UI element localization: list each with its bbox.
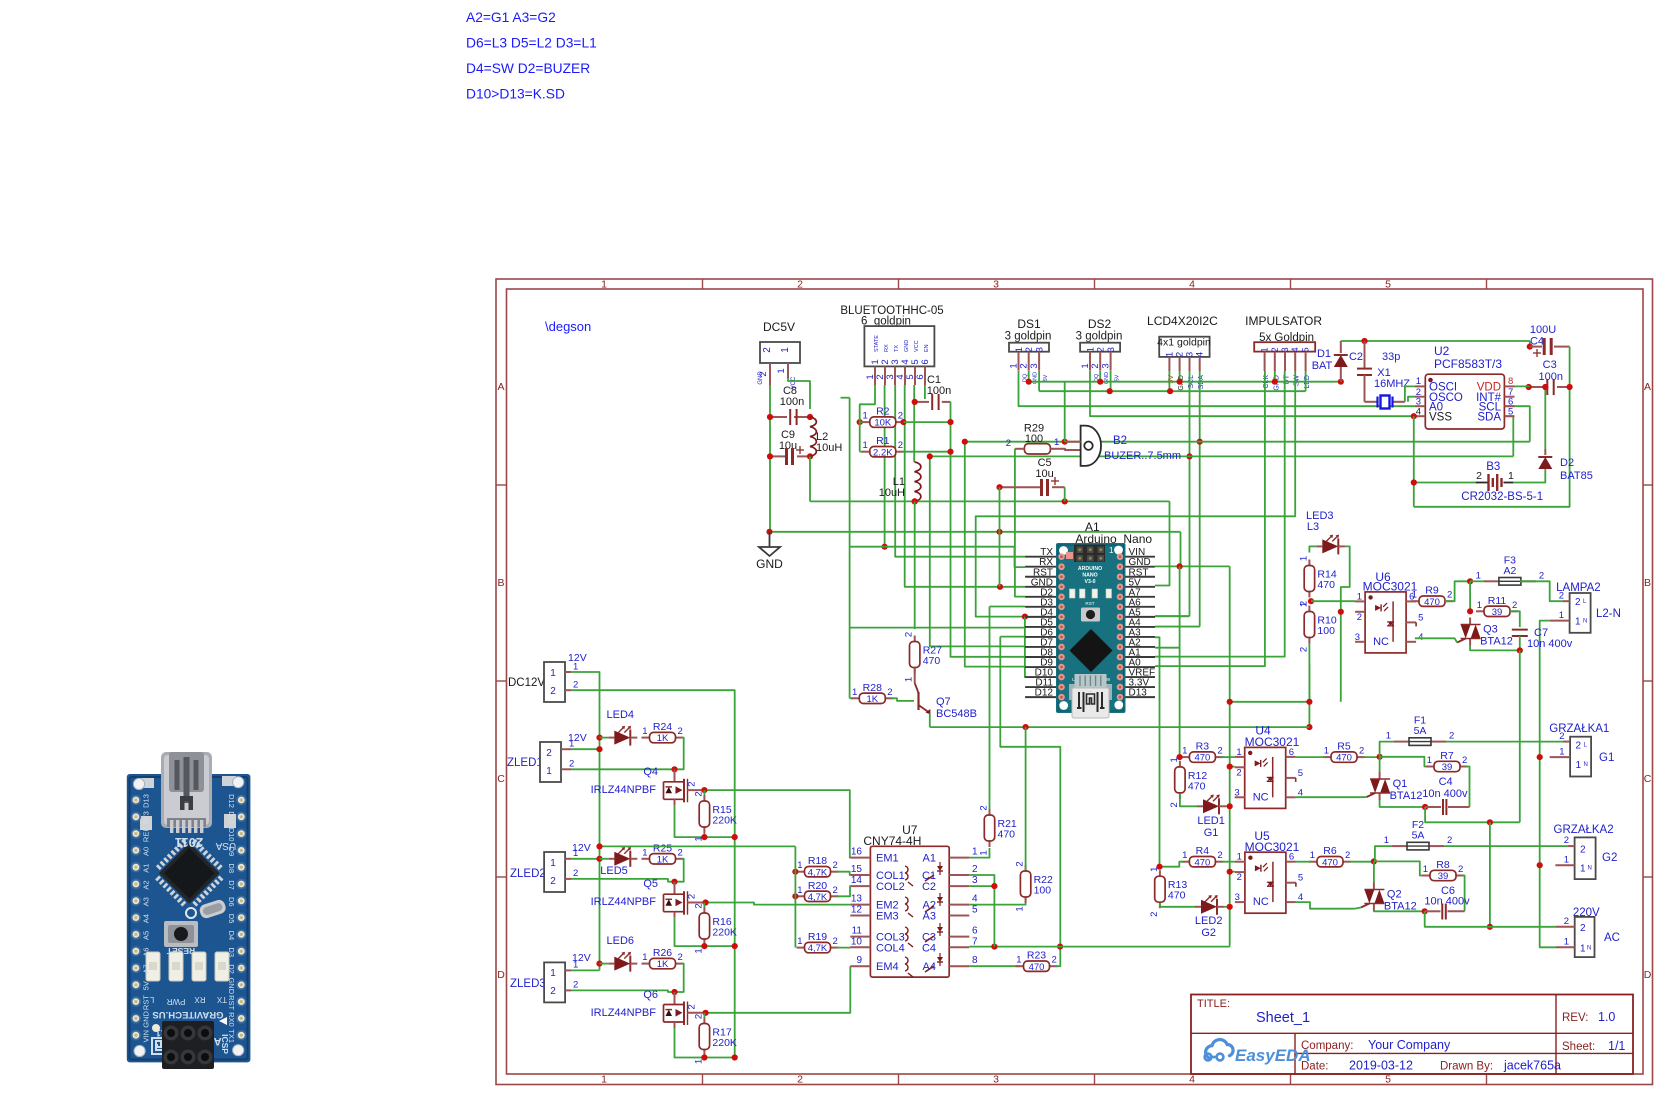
arduino nano board graphic	[1056, 543, 1126, 713]
transistor Q6 IRLZ44NPBF	[674, 992, 676, 1005]
sheet column/row ticks and labels	[702, 279, 704, 289]
node junction at 705.6,902.5	[703, 899, 709, 905]
svg-text:1: 1	[1423, 864, 1428, 875]
wire D7 col	[930, 456, 1025, 646]
svg-text:4,7K: 4,7K	[808, 867, 828, 878]
U7 pin 8 A4	[949, 965, 969, 967]
svg-text:LED1: LED1	[1197, 815, 1225, 827]
wire D3 col to R21	[990, 606, 1026, 608]
svg-text:STATE: STATE	[874, 335, 880, 352]
wire U7 A1 to R21	[969, 848, 989, 858]
svg-text:1: 1	[1260, 347, 1270, 352]
svg-text:10u: 10u	[1035, 468, 1053, 480]
svg-text:Drawn By:: Drawn By:	[1440, 1061, 1493, 1073]
svg-text:2019-03-12: 2019-03-12	[1349, 1059, 1413, 1073]
U7 pin 13 EM2	[850, 904, 870, 906]
svg-text:GND: GND	[227, 977, 236, 994]
svg-text:5A: 5A	[1414, 725, 1427, 737]
U7 inner transistor glyphs	[905, 866, 908, 880]
wire Q2 loop down to AC pin2 run	[1425, 911, 1556, 927]
svg-text:1: 1	[1357, 591, 1362, 602]
svg-text:11: 11	[852, 926, 863, 937]
svg-text:2: 2	[1559, 731, 1564, 742]
svg-text:1K: 1K	[657, 959, 669, 970]
svg-text:EM3: EM3	[876, 911, 899, 923]
resistor R15	[703, 795, 705, 801]
wire F2-1 to node	[1375, 846, 1392, 861]
wire R18-2 to COL1	[837, 872, 851, 875]
wire R9-2 to F3	[1445, 581, 1470, 601]
svg-text:100U: 100U	[1530, 324, 1556, 336]
svg-text:A3: A3	[923, 911, 936, 923]
svg-text:N: N	[1587, 946, 1591, 952]
svg-text:1: 1	[1016, 955, 1021, 966]
svg-text:1: 1	[601, 1074, 607, 1086]
svg-text:2: 2	[687, 894, 698, 899]
svg-text:220K: 220K	[712, 927, 737, 939]
pin 3.3V (right)	[1126, 686, 1156, 688]
node junction at 1170.1,391.2	[1167, 388, 1173, 394]
svg-text:1: 1	[601, 279, 607, 291]
svg-text:A1: A1	[923, 853, 936, 865]
wire Q6 drain to U7 EM4	[706, 966, 851, 1013]
pin D3 (left)	[1025, 606, 1056, 608]
wire U7 C1/C2 tie	[969, 875, 994, 947]
svg-text:AC: AC	[1604, 932, 1620, 944]
node junction at 1489.9,822.3	[1487, 819, 1493, 825]
svg-text:R1: R1	[876, 435, 890, 447]
svg-text:R25: R25	[653, 842, 672, 854]
svg-text:A2: A2	[1503, 565, 1516, 577]
svg-text:2: 2	[1447, 590, 1452, 601]
svg-text:L3: L3	[1307, 521, 1319, 533]
wire ZLED1 pin1 to 12V col	[571, 748, 600, 750]
node junction at 599.5,737.6	[596, 735, 602, 741]
svg-text:A1: A1	[142, 864, 151, 873]
wire GND rail run	[770, 531, 1181, 533]
node junction at 950.5,422.1	[947, 419, 953, 425]
wire F3 node down to R11/Q3	[1469, 581, 1471, 611]
svg-text:5V: 5V	[1115, 374, 1121, 381]
svg-text:IRLZ44NPBF: IRLZ44NPBF	[591, 896, 657, 908]
svg-text:1: 1	[1575, 617, 1581, 628]
LED LED2	[1195, 906, 1201, 908]
node junction at 704.4,1057.5	[701, 1054, 707, 1060]
svg-text:2: 2	[1462, 755, 1467, 766]
svg-text:12V: 12V	[568, 732, 587, 744]
svg-text:2: 2	[904, 632, 915, 637]
svg-text:BTA12: BTA12	[1390, 790, 1423, 802]
svg-text:R5: R5	[1337, 741, 1351, 753]
wire vdd top run	[1341, 340, 1530, 342]
svg-text:NC: NC	[1253, 896, 1269, 908]
svg-text:5: 5	[1298, 768, 1303, 779]
svg-text:RST: RST	[142, 995, 151, 1010]
wire R11-2 to C7	[1510, 611, 1520, 627]
svg-text:1: 1	[1236, 747, 1241, 758]
pin A4 (right)	[1126, 626, 1156, 628]
wire L1 bottom to R27 column	[914, 501, 916, 629]
wire Q3 bottom loop	[1470, 646, 1520, 651]
svg-text:470: 470	[1194, 857, 1210, 868]
svg-text:13: 13	[851, 894, 863, 905]
wire R29 to D2	[1015, 449, 1025, 597]
wire neutral bus	[1540, 621, 1556, 948]
node junction at 1229.7,871.7	[1227, 869, 1233, 875]
wire D10 to D4	[1024, 617, 1026, 678]
pin A2 (right)	[1126, 646, 1156, 648]
svg-text:1: 1	[1384, 835, 1389, 846]
pin A0 (right)	[1126, 666, 1156, 668]
svg-text:14: 14	[851, 875, 863, 886]
pin D12 (left)	[1025, 696, 1056, 698]
wire LCD SCL col to A5	[1189, 371, 1191, 616]
wire A4 col up	[1155, 626, 1200, 628]
wire IMP DT to A1 row	[1155, 371, 1285, 657]
wire B3 left to VSS col	[1414, 482, 1476, 484]
optocoupler U6 MOC3021	[1365, 592, 1406, 653]
node junction at 914.7,501.4	[912, 498, 918, 504]
svg-text:1: 1	[863, 411, 868, 422]
node junction at 1100.2,381.7	[1097, 379, 1103, 385]
node junction at 795.4,871.7	[792, 869, 798, 875]
svg-text:2: 2	[550, 986, 556, 997]
svg-text:2: 2	[1512, 600, 1517, 611]
svg-text:10n 400v: 10n 400v	[1422, 788, 1468, 800]
svg-text:1: 1	[1169, 757, 1180, 762]
wire R23-2 to D6 col	[1056, 959, 1061, 967]
svg-text:1: 1	[904, 677, 915, 682]
node junction at 674.5,769.3	[671, 766, 677, 772]
pin A1 (right)	[1126, 656, 1156, 658]
node junction at 1539.7,865.2	[1537, 862, 1543, 868]
wire Q4 source to rail	[675, 805, 735, 837]
resistor R4	[1181, 861, 1189, 863]
wire R22 top to gnd run	[1025, 727, 1027, 870]
node junction at 1159.5,866.7	[1156, 864, 1162, 870]
svg-text:D12: D12	[1035, 688, 1054, 699]
wire LCD SDA col to A4	[1199, 371, 1201, 627]
svg-text:D13: D13	[142, 794, 151, 808]
wire ZLED1 pin2 to gate node	[571, 768, 675, 770]
wire R4-1 to A3 node	[1160, 862, 1184, 867]
node junction at 1569.6,387	[1567, 384, 1573, 390]
svg-text:5: 5	[1298, 873, 1303, 884]
node junction at 599.5,858.8	[596, 856, 602, 862]
svg-text:2: 2	[573, 980, 578, 991]
wire R6-2 to F2 node	[1349, 861, 1374, 863]
svg-text:470: 470	[1188, 780, 1206, 792]
svg-text:4: 4	[1290, 347, 1300, 352]
resistor R14	[1308, 560, 1310, 566]
svg-text:GND: GND	[142, 1010, 151, 1027]
svg-text:D9: D9	[227, 847, 236, 857]
svg-text:N: N	[1588, 866, 1592, 872]
svg-text:D6=L3 D5=L2 D3=L1: D6=L3 D5=L2 D3=L1	[466, 36, 597, 51]
wire ZLED2 pin2 to gate node	[571, 879, 675, 882]
svg-text:470: 470	[1322, 857, 1338, 868]
wire D6 col to R23 col	[1000, 636, 1025, 638]
wire RX link column	[849, 398, 851, 699]
svg-text:4: 4	[1195, 352, 1206, 357]
node junction at 964.8,441.7	[962, 439, 968, 445]
svg-text:NC: NC	[1373, 636, 1389, 648]
wire crystal to OSCI	[1405, 386, 1415, 401]
resistor R5	[1323, 756, 1331, 758]
svg-text:2: 2	[1447, 835, 1452, 846]
svg-text:R24: R24	[653, 721, 672, 733]
pin D7 (left)	[1025, 646, 1056, 648]
svg-text:A2=G1 A3=G2: A2=G1 A3=G2	[466, 10, 556, 25]
node junction at 1529.8,346.6	[1527, 344, 1533, 350]
U7 pin 6 C3	[949, 936, 969, 938]
svg-text:1: 1	[1149, 867, 1160, 872]
wire R24-2 to node	[675, 738, 684, 770]
svg-text:1: 1	[979, 850, 990, 855]
resistor R19	[797, 947, 805, 949]
svg-text:EM4: EM4	[876, 961, 899, 973]
svg-text:C3: C3	[1543, 359, 1557, 371]
svg-text:2: 2	[687, 781, 698, 786]
svg-text:R19: R19	[808, 931, 827, 943]
node junction at 1373.9,861.4	[1371, 858, 1377, 864]
node junction at 1199.7,441.7	[1197, 439, 1203, 445]
resistor R7	[1426, 766, 1434, 768]
EasyEDA logo	[1205, 1040, 1233, 1061]
svg-text:D11: D11	[227, 811, 236, 824]
svg-text:1K: 1K	[866, 694, 878, 705]
wire ZLED3 pin2 to gate node	[571, 990, 675, 992]
svg-text:39: 39	[1442, 762, 1453, 773]
svg-text:3V3: 3V3	[142, 811, 151, 824]
wire VDD to C3	[1515, 385, 1529, 388]
wire U7 A2 to R22	[969, 898, 1025, 905]
wire DS1 DQ to A0 row	[1019, 371, 1415, 406]
svg-text:4,7K: 4,7K	[808, 892, 828, 903]
svg-text:2: 2	[678, 726, 683, 737]
wire 12V to pullup column	[600, 845, 796, 847]
node junction at 1311,601.2	[1308, 598, 1314, 604]
svg-text:2: 2	[1449, 731, 1454, 742]
wire 5V rail run	[810, 500, 1170, 502]
svg-text:ZLED3: ZLED3	[510, 978, 546, 990]
node junction at 1229.7,906.8	[1227, 904, 1233, 910]
wire R12 bottom to LED1	[1180, 793, 1197, 806]
svg-text:1: 1	[780, 347, 791, 353]
svg-text:10uH: 10uH	[879, 487, 905, 499]
svg-text:2: 2	[1564, 835, 1569, 846]
wire R19-2 to COL4	[837, 946, 851, 948]
svg-text:3: 3	[1280, 347, 1290, 352]
wire BT VCC to L1	[913, 385, 915, 462]
svg-text:A2: A2	[142, 880, 151, 889]
svg-text:3: 3	[1234, 787, 1239, 798]
node junction at 929.8,456.4	[927, 453, 933, 459]
wire Q1 loop down to run	[1425, 807, 1520, 822]
svg-text:2: 2	[1169, 802, 1180, 807]
U7 pin 3 C2	[949, 885, 969, 887]
node junction at 1309.4,701.8	[1306, 699, 1312, 705]
wire U7 A4 to R23	[969, 965, 1020, 967]
svg-text:6: 6	[1289, 852, 1294, 863]
node junction at 1528.7,387	[1526, 384, 1532, 390]
svg-text:U2: U2	[1434, 344, 1450, 358]
node junction at 734.7,837.1	[732, 834, 738, 840]
node junction at 1229.7,806.3	[1227, 803, 1233, 809]
svg-text:3: 3	[1101, 363, 1112, 368]
U7 pin 10 COL4	[850, 946, 870, 948]
svg-text:2: 2	[569, 759, 574, 770]
svg-text:B3: B3	[1486, 461, 1500, 473]
wire Q5 source to rail	[675, 918, 735, 946]
wire SCL run to U2 SDA	[1504, 416, 1513, 456]
svg-text:D10: D10	[227, 828, 236, 842]
svg-text:1: 1	[1580, 864, 1586, 875]
U7 pin 2 C1	[949, 874, 969, 876]
svg-text:2: 2	[1359, 746, 1364, 757]
svg-text:2: 2	[693, 791, 704, 796]
svg-text:2: 2	[833, 860, 838, 871]
svg-text:ZLED1: ZLED1	[507, 757, 543, 769]
wire R2-1 tie to R1-1	[859, 416, 861, 452]
svg-text:G1: G1	[1204, 827, 1219, 839]
sheet inner border	[507, 289, 1644, 1074]
svg-text:1: 1	[797, 936, 802, 947]
resistor R25	[642, 858, 650, 860]
node junction at 1309.4,727.1	[1306, 724, 1312, 730]
wire F1-2 to GRZALKA1	[1446, 741, 1563, 743]
svg-text:1: 1	[642, 726, 647, 737]
svg-text:CR2032-BS-5-1: CR2032-BS-5-1	[1461, 491, 1543, 503]
node junction at 994.4,886.1	[991, 883, 997, 889]
svg-text:Sheet_1: Sheet_1	[1256, 1010, 1310, 1026]
U7 pin 11 COL3	[850, 936, 870, 938]
svg-text:D6: D6	[227, 897, 236, 907]
pin D8 (left)	[1025, 656, 1056, 658]
svg-text:BAT85: BAT85	[1560, 470, 1593, 482]
svg-text:Sheet:: Sheet:	[1562, 1041, 1595, 1053]
wire node to R8	[1374, 861, 1427, 875]
svg-text:VIN: VIN	[142, 1030, 151, 1043]
wire R20-2 to COL2	[837, 886, 851, 896]
svg-text:Q2: Q2	[1387, 889, 1402, 901]
pin RX (left)	[1025, 566, 1056, 568]
svg-text:1: 1	[642, 847, 647, 858]
node junction at 769.5,531.8	[766, 529, 772, 535]
wire R8-2 to C6 right	[1462, 876, 1465, 912]
wire C1/R1 column down to D8	[951, 402, 1026, 657]
svg-text:470: 470	[1424, 597, 1440, 608]
node junction at 1539.7,757.1	[1537, 754, 1543, 760]
svg-text:3: 3	[1106, 347, 1117, 352]
pin D9 (left)	[1025, 666, 1056, 668]
svg-text:1: 1	[1237, 852, 1242, 863]
svg-text:1: 1	[1580, 944, 1586, 955]
svg-text:2: 2	[1580, 923, 1586, 934]
pin VREF (right)	[1126, 676, 1156, 678]
svg-text:GRZAŁKA2: GRZAŁKA2	[1554, 824, 1614, 836]
svg-text:BUZER..7.5mm: BUZER..7.5mm	[1104, 450, 1181, 462]
pin A7 (right)	[1126, 596, 1156, 598]
svg-text:1: 1	[550, 668, 556, 679]
svg-text:1: 1	[1386, 731, 1391, 742]
svg-text:9: 9	[856, 955, 862, 966]
resistor R10	[1308, 606, 1310, 612]
wire node down to Q2	[1373, 861, 1375, 882]
wire DC5V pin2 to gnd rail	[769, 385, 771, 532]
svg-text:2: 2	[1476, 470, 1482, 482]
wire SDA run to U2 SCL	[1504, 406, 1529, 442]
pin TX (left)	[1025, 556, 1056, 558]
svg-text:PWR: PWR	[166, 997, 185, 1006]
U7 pin 4 A2	[949, 904, 969, 906]
triac Q1 BTA12	[1379, 772, 1381, 779]
svg-text:1: 1	[1324, 746, 1329, 757]
svg-text:2: 2	[1576, 741, 1582, 752]
resistor R3	[1181, 756, 1189, 758]
svg-text:6: 6	[1289, 747, 1294, 758]
resistor R27	[914, 636, 916, 642]
svg-text:1: 1	[863, 440, 868, 451]
svg-text:100: 100	[1034, 885, 1052, 897]
svg-text:R3: R3	[1196, 741, 1210, 753]
svg-text:A3: A3	[142, 897, 151, 906]
wire C5 left col gnd	[999, 487, 1001, 587]
wire D5 to R28	[850, 697, 853, 699]
U7 pin 9 EM4	[850, 965, 870, 967]
svg-text:2: 2	[972, 864, 978, 875]
svg-text:1: 1	[1559, 610, 1564, 621]
svg-text:NANO: NANO	[1082, 573, 1097, 579]
node junction at 903.5,422.1	[900, 419, 906, 425]
wire ZLED3 pin1 to 12V col	[571, 969, 600, 971]
svg-text:N: N	[1583, 619, 1587, 625]
svg-text:RST: RST	[1085, 601, 1094, 606]
wire gnd main col down	[1229, 566, 1231, 946]
svg-text:100n: 100n	[1539, 371, 1563, 383]
svg-text:470: 470	[923, 655, 941, 667]
wire BT EN stub	[924, 385, 926, 399]
wire C4 right col	[1414, 347, 1570, 507]
photo Arduino Nano board	[127, 752, 251, 1069]
svg-text:2: 2	[1458, 864, 1463, 875]
svg-text:6: 6	[920, 359, 931, 364]
wire F2-2 to GRZALKA2	[1444, 845, 1568, 847]
resistor R6	[1309, 861, 1317, 863]
svg-text:1: 1	[1476, 570, 1481, 581]
svg-text:1: 1	[852, 687, 857, 698]
node junction at 704.4,837.1	[701, 834, 707, 840]
wire R18/R20/R19 column	[794, 846, 796, 947]
svg-text:1: 1	[550, 968, 556, 979]
svg-text:ARDUINO: ARDUINO	[1078, 566, 1102, 572]
svg-text:2: 2	[1237, 872, 1242, 883]
svg-text:3: 3	[993, 279, 999, 291]
svg-text:C2: C2	[922, 881, 936, 893]
svg-text:4x1 goldpin: 4x1 goldpin	[1157, 337, 1211, 349]
svg-text:D8: D8	[227, 863, 236, 873]
svg-text:TITLE:: TITLE:	[1197, 998, 1230, 1010]
svg-text:GND: GND	[756, 557, 783, 571]
svg-text:2: 2	[693, 903, 704, 908]
svg-text:VSS: VSS	[1429, 411, 1452, 423]
svg-text:A6: A6	[142, 948, 151, 957]
optocoupler U4 MOC3021	[1245, 747, 1286, 808]
node junction at 704.4,790.1	[701, 787, 707, 793]
LED LED4	[608, 737, 614, 739]
wire IMP CLK to A0 row	[1155, 371, 1265, 666]
svg-text:2: 2	[1217, 850, 1222, 861]
